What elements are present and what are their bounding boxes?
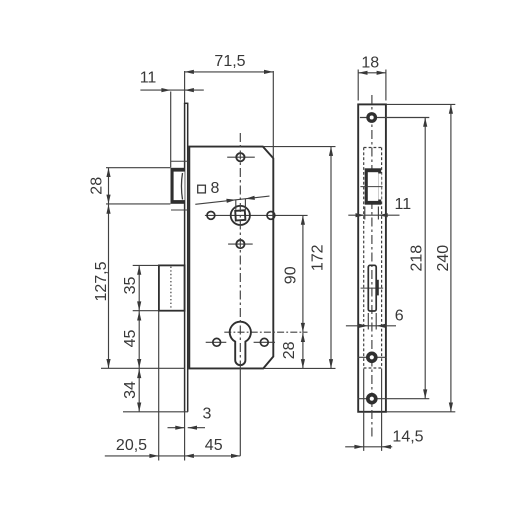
hidden lock body dashed lines (364, 148, 382, 369)
lock body outline (189, 147, 273, 369)
dimension 8 square follower (195, 180, 269, 210)
centerline extension below body (239, 368, 241, 456)
svg-text:45: 45 (205, 437, 223, 454)
svg-text:11: 11 (140, 69, 157, 86)
cylinder side hole right (254, 341, 275, 343)
svg-text:14,5: 14,5 (392, 429, 423, 446)
svg-text:18: 18 (361, 54, 379, 71)
svg-text:90: 90 (282, 266, 299, 284)
deadbolt hidden edge (170, 267, 172, 310)
top fixing hole (227, 156, 255, 158)
vertical centerline right view (371, 95, 373, 437)
dimension 35 deadbolt height (133, 265, 159, 310)
dimension 6 slot width (346, 313, 396, 330)
follower side hole right (267, 212, 275, 220)
bottom screw hole (358, 398, 430, 400)
svg-text:3: 3 (202, 406, 211, 423)
middle screw hole (358, 356, 387, 358)
svg-text:34: 34 (122, 381, 139, 399)
follower 8mm square (235, 210, 245, 220)
dimension 20,5 and 45 bottom (105, 312, 241, 461)
svg-text:8: 8 (210, 180, 219, 197)
dimension 240 (386, 104, 455, 411)
deadbolt slot side view (361, 287, 384, 289)
svg-text:6: 6 (395, 307, 404, 324)
follower horizontal centerline (205, 214, 308, 216)
svg-text:218: 218 (409, 245, 426, 272)
dimension 127,5 (108, 204, 110, 368)
faceplate front view (184, 103, 189, 412)
dimension 172 (264, 147, 336, 369)
cylinder horizontal centerline (224, 331, 307, 333)
dimension 18 (358, 70, 386, 101)
cylinder side hole left (206, 341, 227, 343)
svg-text:28: 28 (281, 341, 298, 359)
dimension 11 latch width (348, 207, 399, 220)
dimension 71,5 (185, 71, 274, 158)
dimension 11 latch protrusion (140, 90, 203, 167)
vertical centerline left view (239, 133, 241, 368)
follower ring (231, 206, 250, 225)
deadbolt stump tab (376, 280, 379, 296)
latch bolt front view (171, 161, 188, 210)
svg-text:28: 28 (89, 177, 106, 195)
dimension 28 latch height (106, 168, 170, 204)
dimension 90 (302, 215, 304, 332)
svg-text:127,5: 127,5 (93, 261, 110, 301)
euro profile cylinder hole (230, 322, 251, 365)
dimension 14,5 (345, 369, 392, 451)
deadbolt front view (159, 265, 185, 310)
dimension 45 left (138, 311, 140, 369)
svg-text:172: 172 (309, 244, 326, 271)
dimension 34 (101, 368, 188, 412)
follower side hole left (207, 212, 215, 220)
dimension 3 faceplate thickness (168, 412, 206, 461)
svg-text:11: 11 (394, 196, 411, 213)
hole below follower (228, 243, 253, 245)
dimension 28 bottom right (302, 332, 304, 368)
svg-text:20,5: 20,5 (116, 437, 147, 454)
dimension 218 (424, 118, 426, 399)
faceplate side view outline (358, 104, 386, 411)
top screw hole (360, 117, 429, 119)
svg-text:35: 35 (122, 277, 139, 295)
latch bolt side view (360, 168, 382, 204)
svg-text:71,5: 71,5 (214, 53, 245, 70)
svg-text:240: 240 (435, 245, 452, 272)
svg-text:45: 45 (122, 330, 139, 348)
